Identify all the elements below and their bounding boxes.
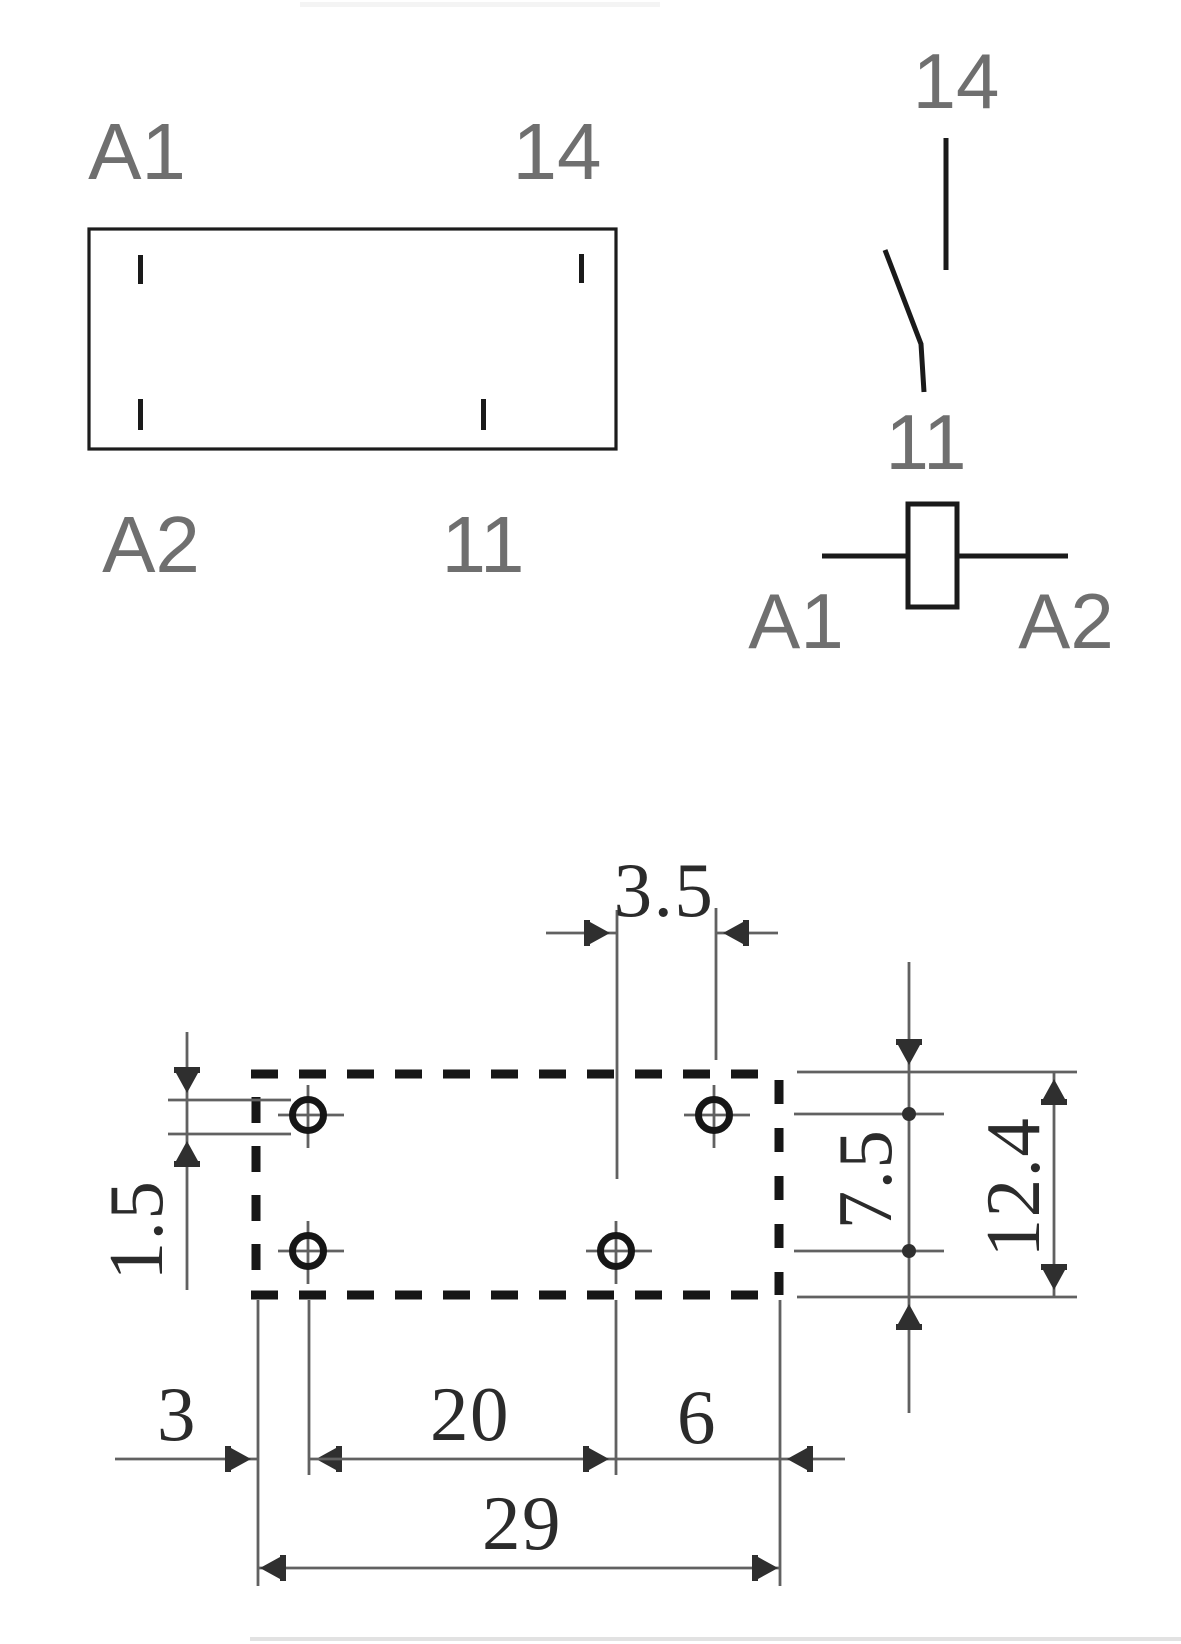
switch arm contact xyxy=(885,250,924,392)
dimension 29 right arrow xyxy=(752,1555,778,1581)
extension line footprint right edge down xyxy=(779,1300,782,1586)
svg-text:6: 6 xyxy=(677,1374,717,1460)
dimension 3.5 extension line right xyxy=(715,908,718,1060)
extension line top hole row right xyxy=(794,1113,944,1116)
svg-text:A2: A2 xyxy=(1018,577,1113,665)
svg-text:1.5: 1.5 xyxy=(93,1180,179,1281)
wire lead contact 14 xyxy=(944,138,949,270)
footprint outline right edge (dashed) xyxy=(775,1074,784,1295)
dimension 3 tail line with arrow xyxy=(115,1458,258,1461)
dimension 1.5 arrow down xyxy=(174,1067,200,1093)
faint scan smudge top xyxy=(300,2,660,7)
dimension 6 outside arrow with tail xyxy=(780,1458,845,1461)
svg-text:20: 20 xyxy=(430,1371,510,1457)
dimension 29 line xyxy=(258,1567,780,1570)
hole pin A2 crosshair xyxy=(278,1250,344,1253)
extension line footprint bottom edge right xyxy=(797,1296,1077,1299)
dimension 29 left arrow xyxy=(260,1555,286,1581)
dimension 7.5 node dot top xyxy=(902,1107,916,1121)
coil (relay coil A1-A2) xyxy=(908,504,957,607)
faint scan line bottom xyxy=(250,1637,1181,1641)
svg-text:A1: A1 xyxy=(88,107,186,196)
extension line footprint left edge down xyxy=(257,1300,260,1586)
svg-text:A1: A1 xyxy=(748,577,843,665)
footprint outline bottom edge (dashed) xyxy=(251,1291,779,1300)
pin 14 mark xyxy=(579,254,584,283)
svg-text:14: 14 xyxy=(913,37,1000,125)
dimension 6 line xyxy=(616,1458,780,1461)
dimension 7.5 arrow down xyxy=(896,1039,922,1065)
extension line footprint top edge right xyxy=(797,1071,1077,1074)
pin 11 mark xyxy=(481,399,486,430)
footprint outline left edge (dashed) xyxy=(252,1074,261,1295)
footprint outline top edge (dashed) xyxy=(251,1070,779,1079)
hole pin 14 xyxy=(699,1100,730,1131)
hole pin 11 crosshair xyxy=(586,1250,652,1253)
hole pin A1 xyxy=(293,1100,324,1131)
hole pin A2 xyxy=(293,1236,324,1267)
svg-text:29: 29 xyxy=(482,1480,562,1566)
dimension 20 line xyxy=(309,1458,616,1461)
wire A1 to coil xyxy=(822,554,908,559)
dimension 3 right arrow xyxy=(316,1446,342,1472)
svg-text:11: 11 xyxy=(441,500,524,589)
hole pin 14 crosshair xyxy=(684,1114,750,1117)
dimension 12.4 line xyxy=(1053,1072,1056,1297)
svg-text:3: 3 xyxy=(157,1371,197,1457)
dimension 7.5 arrow up xyxy=(896,1304,922,1330)
dimension 7.5 node dot bottom xyxy=(902,1244,916,1258)
hole pin 11 xyxy=(601,1236,632,1267)
svg-text:11: 11 xyxy=(886,398,967,486)
svg-text:3.5: 3.5 xyxy=(614,847,715,933)
dimension 1.5 arrow up xyxy=(174,1141,200,1167)
svg-text:14: 14 xyxy=(513,107,602,196)
dimension 1.5 line xyxy=(186,1032,189,1290)
extension line bottom hole row right xyxy=(794,1250,944,1253)
pin A1 mark xyxy=(138,255,143,284)
dimension 3.5 extension line left xyxy=(616,910,619,1179)
extension line centre hole column down xyxy=(615,1300,618,1475)
dimension 12.4 arrow up xyxy=(1041,1079,1067,1105)
dimension 3.5 line left with arrow xyxy=(546,932,617,935)
svg-text:A2: A2 xyxy=(102,500,200,589)
svg-text:12.4: 12.4 xyxy=(970,1117,1056,1258)
dimension 3.5 line right with arrow xyxy=(716,932,778,935)
svg-text:7.5: 7.5 xyxy=(822,1129,908,1230)
dimension 7.5 line xyxy=(908,962,911,1413)
wire coil to A2 xyxy=(957,554,1068,559)
extension line left hole column down xyxy=(308,1300,311,1475)
relay body outline (top view) xyxy=(89,229,616,449)
dimension 12.4 arrow down xyxy=(1041,1264,1067,1290)
hole pin A1 crosshair xyxy=(278,1114,344,1117)
dimension 20 right arrow xyxy=(583,1446,609,1472)
dimension 1.5 extension lines xyxy=(168,1099,291,1102)
pin A2 mark xyxy=(138,399,143,430)
